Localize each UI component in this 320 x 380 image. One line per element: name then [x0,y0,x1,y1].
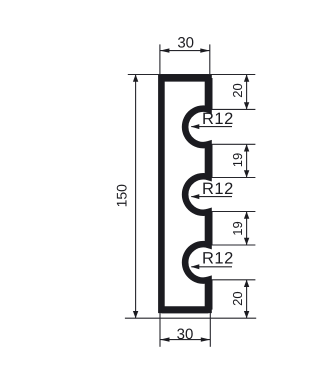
svg-text:30: 30 [177,326,194,343]
svg-text:150: 150 [114,184,130,208]
svg-text:19: 19 [230,153,245,167]
svg-text:19: 19 [230,221,245,235]
svg-text:R12: R12 [202,249,234,267]
svg-text:20: 20 [230,83,245,97]
svg-text:30: 30 [177,34,194,51]
svg-text:R12: R12 [202,180,234,198]
svg-text:R12: R12 [202,110,234,128]
svg-text:20: 20 [230,291,245,305]
